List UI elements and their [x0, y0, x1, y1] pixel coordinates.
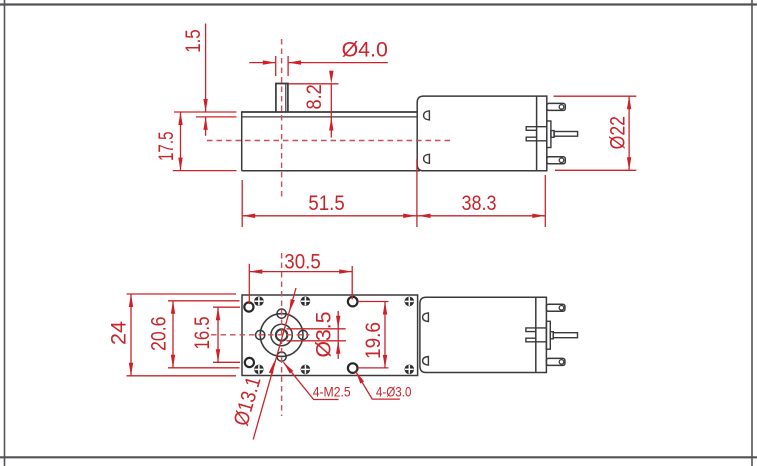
svg-text:30.5: 30.5: [284, 251, 321, 274]
shaft collar side view: [551, 131, 554, 138]
dim Ø3.5 dimension line: [337, 311, 339, 359]
svg-text:Ø4.0: Ø4.0: [342, 39, 388, 62]
motor end cap seam side view: [536, 96, 538, 171]
arrows bottom view: [129, 269, 387, 383]
dim 1.5 leader above: [205, 24, 207, 113]
flange hub circle: [271, 324, 292, 345]
output shaft flat line: [285, 84, 287, 113]
dim 17.5 dimension line: [180, 112, 182, 171]
motor terminal upper side view: [547, 103, 566, 110]
drawing frame bottom border: [0, 456, 757, 458]
svg-text:16.5: 16.5: [191, 317, 214, 350]
dim 19.6 extension bottom: [358, 367, 389, 369]
dim 51.5 and 38.3 dimension line: [242, 215, 545, 217]
red dimensions top view: [173, 24, 637, 228]
dim 20.6 extension bottom: [168, 367, 240, 369]
motor shaft side view: [554, 132, 578, 137]
dim 24 extension top: [127, 293, 237, 295]
dim 20.6 dimension line: [172, 301, 174, 368]
bearing boss side view: [547, 121, 551, 148]
leader 4-M2.5: [283, 362, 338, 399]
open hole Ø3.0 upper: [348, 297, 358, 307]
svg-text:38.3: 38.3: [462, 192, 497, 215]
terminal hole upper plan view: [559, 306, 564, 311]
bearing boss plan view: [546, 321, 550, 349]
dim 30.5 extension right: [351, 266, 353, 299]
dim Ø22 dimension line: [628, 96, 630, 170]
terminal hole upper side view: [559, 105, 564, 110]
dim 30.5 extension left: [248, 264, 250, 304]
dim Ø4.0 extension line left: [275, 56, 277, 76]
dim 38.3 extension right: [544, 175, 546, 227]
red dimensions bottom view: [127, 264, 400, 440]
svg-text:24: 24: [108, 321, 131, 345]
gearbox housing left edge: [241, 111, 243, 171]
motor vent notch lower plan view: [423, 357, 429, 366]
svg-text:1.5: 1.5: [182, 29, 205, 53]
motor end cap seam plan view: [535, 297, 537, 372]
svg-text:Ø22: Ø22: [607, 116, 630, 149]
motor can outline side view: [417, 96, 547, 171]
output shaft hole Ø3.5: [276, 329, 287, 340]
dim 20.6 extension top: [168, 300, 240, 302]
svg-text:4-M2.5: 4-M2.5: [313, 383, 351, 399]
vertical centerline through output shaft: [281, 39, 283, 199]
screw head bottom right: [405, 365, 415, 375]
dim Ø4.0 dimension line right segment: [288, 62, 388, 64]
dim 24 dimension line: [130, 294, 132, 376]
leader 4-Ø3.0: [356, 371, 400, 399]
screw head bottom middle: [301, 365, 311, 375]
terminal hole lower side view: [559, 158, 564, 163]
brush clip fork plan view: [526, 328, 547, 342]
horizontal centerline through flange: [211, 334, 310, 336]
output shaft side outline: [276, 84, 288, 113]
flange outer circle: [260, 314, 303, 357]
dimension texts bottom view: [108, 251, 386, 429]
svg-text:19.6: 19.6: [362, 322, 385, 359]
ring hole lower left: [245, 358, 254, 367]
svg-text:51.5: 51.5: [308, 192, 344, 215]
screw head top middle: [301, 296, 311, 306]
dimension texts top view: [155, 29, 630, 215]
leader Ø13.1: [253, 288, 296, 440]
dim 1.5 leader below: [205, 117, 207, 136]
motor terminal lower side view: [547, 157, 566, 164]
dim 16.5 extension bottom: [213, 361, 240, 363]
screw heads plan view: [254, 296, 414, 374]
dim 8.2 dimension line: [330, 84, 332, 138]
arrows top view: [178, 60, 631, 218]
drawing frame left border: [4, 0, 6, 466]
dim Ø4.0 dimension line left segment: [249, 62, 276, 64]
motor terminal lower plan view: [546, 358, 565, 365]
centerlines top view: [207, 39, 452, 199]
dim Ø4.0 extension line right: [287, 56, 289, 76]
dim 51.5 extension left: [241, 180, 243, 227]
svg-text:8.2: 8.2: [303, 84, 326, 109]
motor vent notch lower side view: [424, 154, 430, 163]
brush clip fork side view: [526, 127, 547, 141]
dim Ø3.5 tangent line bottom: [287, 340, 346, 342]
screw head top left: [254, 296, 264, 306]
open hole Ø3.0 lower: [348, 363, 358, 373]
motor shaft plan view: [553, 333, 577, 338]
flange bolt hole top: [277, 309, 286, 318]
motor vent notch upper side view: [424, 111, 430, 120]
horizontal centerline of gearbox: [207, 140, 452, 142]
gearbox housing top face line: [242, 111, 418, 113]
motor vent notch upper plan view: [423, 313, 429, 322]
screw head top right: [405, 297, 415, 307]
dim 24 extension bottom: [127, 375, 237, 377]
dim 16.5 dimension line: [217, 307, 219, 362]
dim Ø22 extension top: [554, 95, 637, 97]
dim 51.5/38.3 shared extension: [416, 159, 418, 227]
gearbox mounting plate outline: [242, 295, 418, 376]
shaft collar plan view: [550, 332, 553, 339]
svg-text:17.5: 17.5: [155, 132, 178, 162]
vertical centerline through flange: [281, 253, 283, 416]
svg-text:20.6: 20.6: [148, 317, 171, 352]
dim 19.6 dimension line: [384, 302, 386, 368]
svg-text:Ø3.5: Ø3.5: [313, 312, 336, 358]
dim 1.5 extension lines: [174, 111, 237, 113]
dim 8.2 extension line: [289, 83, 339, 85]
drawing frame top border: [0, 3, 757, 5]
motor terminal upper plan view: [546, 304, 565, 311]
drawing frame right border: [751, 0, 753, 466]
flange bolt hole bottom: [277, 352, 286, 361]
gearbox housing bottom edge: [242, 170, 420, 172]
dim 30.5 dimension line: [249, 271, 352, 273]
centerlines bottom view: [211, 253, 310, 416]
flange bolt hole right: [298, 330, 307, 339]
dim Ø22 extension bottom: [555, 169, 636, 171]
terminal hole lower plan view: [559, 360, 564, 365]
ring hole upper left: [244, 302, 253, 311]
motor can outline plan view: [420, 297, 547, 372]
svg-text:4-Ø3.0: 4-Ø3.0: [376, 383, 412, 399]
flange bolt hole left: [256, 330, 265, 339]
dim 19.6 extension top: [358, 301, 389, 303]
gearbox housing inner lip line: [242, 116, 418, 118]
screw head bottom left: [254, 365, 264, 375]
dim Ø3.5 tangent line top: [287, 328, 346, 330]
dim 17.5 extension bottom: [173, 170, 237, 172]
dim 16.5 extension top: [213, 306, 240, 308]
